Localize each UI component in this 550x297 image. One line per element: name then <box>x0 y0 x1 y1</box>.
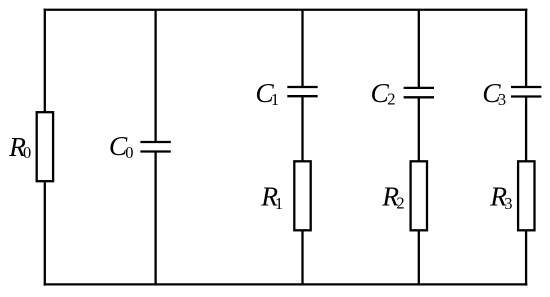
svg-text:3: 3 <box>504 194 512 213</box>
svg-text:0: 0 <box>23 143 31 162</box>
capacitor C1 plates <box>287 86 317 88</box>
wire branch1 upper <box>301 10 303 87</box>
capacitor C0 plates <box>140 141 170 143</box>
wire C0 branch upper <box>154 10 156 142</box>
wire branch2 upper <box>418 10 420 88</box>
wire C0 branch lower <box>154 152 156 285</box>
svg-text:3: 3 <box>498 90 506 109</box>
wire branch3 middle <box>525 97 527 162</box>
svg-text:1: 1 <box>271 90 279 109</box>
wire left branch upper <box>44 9 46 113</box>
wire bottom bus <box>44 283 528 285</box>
resistor R3 body <box>518 161 534 230</box>
resistor R2 body <box>411 161 427 230</box>
capacitor C3 plates <box>511 86 541 88</box>
wire branch3 upper <box>525 9 527 87</box>
resistor R0 body <box>37 112 53 181</box>
wire top bus <box>44 9 528 11</box>
capacitor C2 plates <box>404 87 434 89</box>
wire branch2 lower <box>418 230 420 284</box>
wire branch3 lower <box>525 230 527 285</box>
svg-text:2: 2 <box>387 90 395 109</box>
wire branch1 middle <box>301 96 303 161</box>
wire left branch lower <box>44 181 46 285</box>
resistor R1 body <box>294 161 310 230</box>
svg-text:2: 2 <box>396 194 404 213</box>
svg-text:1: 1 <box>275 194 283 213</box>
svg-text:0: 0 <box>125 143 133 162</box>
wire branch1 lower <box>301 230 303 284</box>
wire branch2 middle <box>418 97 420 161</box>
